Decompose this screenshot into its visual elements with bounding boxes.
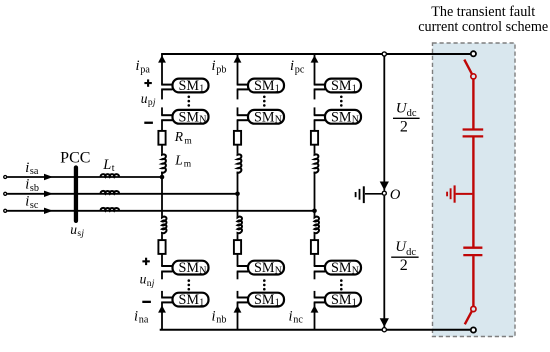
wire: lower chain phase c [314,272,316,280]
arrow into bottom bus [380,318,389,327]
svg-text:1: 1 [352,298,357,309]
inductor Lt phase a [101,174,119,177]
wire: to lower Rm phase a [161,234,163,240]
junction dot phase a [160,175,165,180]
SM1 lower arm phase c leads [314,297,325,299]
inductor Lm upper arm phase a [162,154,166,174]
svg-text:na: na [139,315,149,326]
node: top bus junction [382,52,386,56]
arrow i_sa [44,174,53,180]
SMN upper arm phase b leads [237,114,248,116]
svg-text:L: L [102,157,111,173]
svg-text:SM: SM [331,260,352,276]
svg-text:sb: sb [30,183,39,194]
wire: upper arm to AC node phase a [161,172,163,217]
dots lower arm phase c [340,279,343,282]
wire: upper arm phase a top segment [161,54,163,85]
submodule SM1 upper arm phase b [248,79,284,93]
svg-text:1: 1 [275,298,280,309]
label Udc/2 upper [393,100,420,135]
svg-text:i: i [134,308,138,324]
svg-text:SM: SM [331,109,352,125]
node: AC terminal phase b [4,192,7,195]
SM1 lower arm phase b leads [237,297,248,299]
svg-text:N: N [199,266,206,277]
inductor Lm lower arm phase a [162,216,167,234]
svg-text:SM: SM [331,78,352,94]
label + upper arm [144,82,151,84]
wire: lower chain 2 phase a [161,291,163,298]
arrow i_sb [44,191,53,197]
wire: upper arm chain 2 phase b [237,107,239,115]
svg-text:current control scheme: current control scheme [418,19,548,35]
SMN lower arm phase c leads [314,265,325,267]
svg-text:2: 2 [400,118,408,135]
wire: to lower Rm phase b [237,234,239,240]
svg-text:N: N [352,266,359,277]
wire: upper arm chain phase c [314,89,316,99]
svg-text:u: u [141,91,148,106]
submodule SMN lower arm phase c [325,261,361,275]
submodule SM1 upper arm phase a [173,79,209,93]
svg-text:N: N [275,115,282,126]
svg-text:i: i [290,58,294,74]
resistor Rm upper arm phase c [311,131,318,145]
svg-text:SM: SM [331,292,352,308]
submodule SMN lower arm phase b [248,261,284,275]
svg-text:N: N [275,266,282,277]
SM1 upper arm phase c leads [314,84,325,86]
capacitor C2 [463,248,482,255]
wire: lower chain 2 phase c [314,291,316,298]
node: bottom bus junction [382,328,386,332]
wire: lower Rm to SMN phase a [161,254,163,266]
wire: upper arm phase b top segment [237,54,239,85]
svg-text:SM: SM [254,109,275,125]
ground at node O [356,186,382,203]
resistor Rm upper arm phase b [234,131,241,145]
wire: lower chain phase b [237,272,239,280]
wire: red, C1 to C2 with ground tap [472,137,474,246]
wire: to Rm phase b [237,120,239,131]
wire: Rm to Lm phase c [314,145,316,154]
submodule SMN upper arm phase c [325,110,361,124]
dots lower arm phase a [188,279,191,282]
svg-text:SM: SM [179,109,200,125]
SM1 upper arm phase b leads [237,84,248,86]
wire: DC midpoint vertical lower [383,196,385,327]
svg-text:SM: SM [179,260,200,276]
SMN lower arm phase b leads [237,265,248,267]
svg-text:The transient fault: The transient fault [431,4,535,20]
switch S1 hinge [471,74,476,79]
switch S1 blade (open) [464,60,472,74]
wire: upper arm chain 2 phase a [161,107,163,115]
arrow i_nb [234,305,242,312]
wire: upper arm chain phase a [161,89,163,99]
wire: upper arm chain phase b [237,89,239,99]
submodule SMN lower arm phase a [173,261,209,275]
dots upper arm phase b [263,96,266,99]
svg-text:i: i [25,177,29,193]
wire: to lower Rm phase c [314,234,316,240]
label + lower arm [142,260,149,262]
SMN upper arm phase a leads [161,114,172,116]
wire: lower arm bottom segment phase c [314,302,316,329]
svg-text:u: u [140,272,147,287]
arrow i_pa [158,55,166,62]
arrow into node O [380,182,389,191]
resistor Rm lower arm phase b [234,240,241,254]
wire: lower Rm to SMN phase c [314,254,316,266]
wire: lower chain 2 phase b [237,291,239,298]
wire: upper arm phase c top segment [314,54,316,85]
svg-text:1: 1 [199,83,204,94]
svg-text:1: 1 [199,298,204,309]
dots lower arm phase b [263,279,266,282]
inductor Lm upper arm phase b [238,154,242,174]
wire: top DC bus [161,53,471,55]
svg-text:SM: SM [254,292,275,308]
junction dot phase b [235,192,240,197]
submodule SM1 lower arm phase c [325,293,361,307]
resistor Rm upper arm phase a [158,131,165,145]
inductor Lt phase b [101,191,119,194]
inductor Lt phase c [101,208,119,211]
wire: red, C2 to S2 [472,256,474,306]
wire: lower arm bottom segment phase a [161,302,163,329]
SM1 upper arm phase a leads [161,84,172,86]
junction dot phase c [312,209,317,214]
arrow i_pb [234,55,242,62]
wire: lower arm bottom segment phase b [237,302,239,329]
svg-text:N: N [352,115,359,126]
switch S2 blade (open) [465,312,472,325]
svg-text:sc: sc [30,200,39,211]
svg-text:pb: pb [216,64,226,75]
svg-text:1: 1 [275,83,280,94]
wire: upper arm chain 2 phase c [314,107,316,115]
dots upper arm phase c [340,96,343,99]
submodule SM1 lower arm phase b [248,293,284,307]
capacitor C1 [463,130,484,137]
svg-text:m: m [184,136,192,146]
wire: AC line phase c [7,210,314,212]
svg-text:L: L [174,152,183,167]
wire: AC line phase b [7,193,237,195]
wire: to Rm phase c [314,120,316,131]
node O circle [382,191,386,195]
inductor Lm lower arm phase b [238,216,243,234]
svg-text:N: N [199,115,206,126]
svg-text:PCC: PCC [60,149,90,166]
wire: red, hinge to C1 [472,79,474,129]
switch S2 hinge [471,306,476,311]
svg-text:SM: SM [179,292,200,308]
svg-text:i: i [25,160,29,176]
SMN lower arm phase a leads [161,265,172,267]
submodule SMN upper arm phase b [248,110,284,124]
svg-text:nc: nc [293,315,303,326]
svg-text:O: O [390,187,401,203]
svg-text:dc: dc [407,108,417,119]
svg-text:pc: pc [295,64,305,75]
SM1 lower arm phase a leads [161,297,172,299]
svg-text:nb: nb [216,315,226,326]
inductor Lm upper arm phase c [315,154,319,174]
svg-text:i: i [212,308,216,324]
submodule SM1 lower arm phase a [173,293,209,307]
submodule SM1 upper arm phase c [325,79,361,93]
svg-text:2: 2 [400,257,408,274]
svg-text:SM: SM [179,78,200,94]
wire: bottom DC bus [160,329,471,331]
arrow i_sc [44,208,53,214]
svg-text:i: i [25,194,29,210]
svg-text:i: i [289,308,293,324]
control scheme shaded box [433,43,516,337]
svg-text:1: 1 [352,83,357,94]
svg-text:t: t [112,163,115,174]
node: AC terminal phase a [4,176,7,179]
arrow i_na [158,305,166,312]
resistor Rm lower arm phase c [311,240,318,254]
svg-text:sa: sa [30,166,39,177]
ground (red) at DC midpoint [447,185,472,202]
svg-text:i: i [212,58,216,74]
wire: Rm to Lm phase b [237,145,239,154]
node: AC terminal phase c [4,209,7,212]
wire: upper arm to AC node phase b [237,172,239,217]
arrow i_nc [311,305,319,312]
wire: DC midpoint vertical [383,54,385,191]
wire: AC line phase a [7,176,162,178]
label Udc/2 lower [391,239,418,274]
inductor Lm lower arm phase c [315,216,320,234]
label - upper arm [144,122,153,124]
wire: lower chain phase a [161,272,163,280]
dots upper arm phase a [188,96,191,99]
svg-text:u: u [70,222,77,237]
svg-text:SM: SM [254,260,275,276]
svg-text:m: m [184,160,192,170]
wire: Rm to Lm phase a [161,145,163,154]
svg-text:SM: SM [254,78,275,94]
terminal: top of control scheme [471,51,476,56]
terminal: bottom of control scheme [471,327,476,332]
svg-text:pa: pa [140,64,150,75]
submodule SMN upper arm phase a [173,110,209,124]
wire: lower Rm to SMN phase b [237,254,239,266]
resistor Rm lower arm phase a [158,240,165,254]
PCC busbar [74,165,78,223]
svg-text:i: i [136,58,140,74]
arrow i_pc [311,55,319,62]
wire: to Rm phase a [161,120,163,131]
SMN upper arm phase c leads [314,114,325,116]
svg-text:R: R [174,129,184,144]
label - lower arm [142,301,151,303]
wire: upper arm to AC node phase c [314,172,316,217]
